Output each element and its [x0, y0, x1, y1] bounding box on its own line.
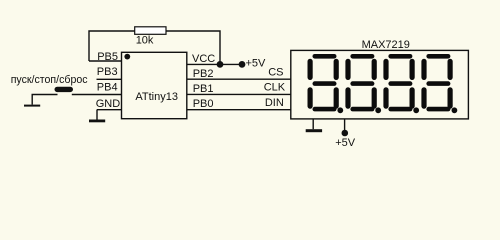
+5V terminal dot (display): [342, 130, 349, 137]
svg-text:VCC: VCC: [192, 53, 215, 65]
wire GND down to ground: [96, 110, 98, 120]
svg-text:CS: CS: [268, 67, 283, 79]
ground (display): [306, 129, 322, 132]
wire PB4 pin from button: [72, 94, 122, 96]
svg-text:PB1: PB1: [193, 83, 214, 95]
pushbutton SB1 cap: [55, 87, 74, 92]
svg-text:+5V: +5V: [335, 137, 356, 149]
7-seg digit 2: [345, 54, 381, 113]
svg-text:ATtiny13: ATtiny13: [135, 91, 178, 103]
ground (GND pin): [89, 120, 105, 123]
svg-text:PB2: PB2: [193, 68, 214, 80]
7-seg digit 1: [308, 54, 344, 113]
svg-text:MAX7219: MAX7219: [362, 39, 410, 51]
7-seg digit 3: [383, 54, 419, 113]
+5V terminal dot: [239, 61, 246, 68]
wire display GND down: [312, 119, 314, 129]
svg-text:CLK: CLK: [264, 82, 286, 94]
wire VCC to +5V: [187, 63, 242, 65]
pin 1 marker dot: [124, 54, 130, 60]
7-seg digit 4: [421, 54, 457, 113]
IC U1 ATtiny13 body: [122, 52, 187, 118]
svg-text:PB0: PB0: [193, 98, 214, 110]
wire resistor to VCC junction vertical: [166, 31, 220, 64]
svg-text:пуск/стоп/сброс: пуск/стоп/сброс: [11, 74, 89, 86]
wire PB0 to DIN: [187, 109, 291, 111]
wire top from PB5 vertical to resistor: [89, 31, 135, 61]
svg-text:GND: GND: [96, 98, 121, 110]
wire PB5 pin: [89, 60, 122, 62]
junction dot VCC/resistor: [217, 61, 224, 68]
wire GND pin: [97, 109, 122, 111]
svg-text:+5V: +5V: [246, 58, 267, 70]
resistor R1: [135, 27, 166, 35]
wire display +5V down: [344, 119, 346, 130]
ground (button): [24, 105, 40, 107]
svg-text:DIN: DIN: [265, 97, 284, 109]
svg-text:PB3: PB3: [97, 66, 118, 78]
display module MAX7219 box: [291, 50, 469, 119]
wire PB3 pin stub: [97, 78, 122, 80]
wire PB1 to CLK: [187, 93, 291, 95]
svg-text:10k: 10k: [136, 35, 154, 47]
svg-text:PB5: PB5: [97, 51, 118, 63]
svg-text:PB4: PB4: [97, 81, 118, 93]
wire PB2 to CS: [187, 78, 291, 80]
wire button left contact: [32, 95, 57, 105]
